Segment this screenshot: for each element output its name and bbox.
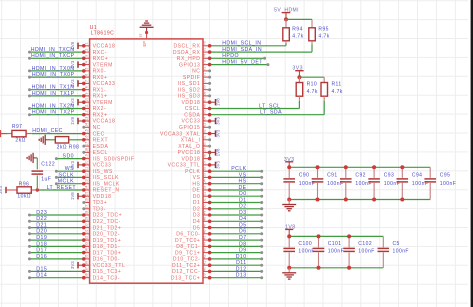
svg-text:TD3-: TD3- bbox=[93, 207, 106, 213]
svg-text:52: 52 bbox=[203, 192, 207, 196]
svg-text:57: 57 bbox=[139, 34, 143, 38]
svg-text:18: 18 bbox=[85, 148, 89, 152]
svg-text:VDD18: VDD18 bbox=[93, 194, 112, 200]
svg-text:C91: C91 bbox=[327, 172, 338, 178]
svg-text:D6: D6 bbox=[239, 229, 247, 235]
svg-text:70: 70 bbox=[203, 79, 207, 83]
svg-text:2kΩ R98: 2kΩ R98 bbox=[57, 144, 80, 150]
svg-text:D5: D5 bbox=[193, 225, 201, 231]
svg-text:RXC+: RXC+ bbox=[93, 56, 109, 62]
svg-text:D17_TD0+: D17_TD0+ bbox=[93, 250, 122, 256]
svg-text:4.7k: 4.7k bbox=[307, 89, 318, 95]
svg-text:D5: D5 bbox=[239, 223, 247, 229]
svg-text:8: 8 bbox=[85, 86, 89, 88]
svg-text:44: 44 bbox=[203, 242, 207, 246]
svg-text:D21_TD2+: D21_TD2+ bbox=[93, 225, 122, 231]
svg-text:10kΩ: 10kΩ bbox=[17, 194, 31, 200]
svg-text:D18_TD1-: D18_TD1- bbox=[93, 244, 120, 250]
svg-text:3V3: 3V3 bbox=[70, 98, 75, 106]
svg-text:D7: D7 bbox=[239, 235, 247, 241]
svg-text:45: 45 bbox=[203, 236, 207, 240]
svg-text:1V8: 1V8 bbox=[70, 41, 75, 49]
svg-text:D19: D19 bbox=[36, 235, 47, 241]
svg-text:CSCL: CSCL bbox=[185, 106, 201, 112]
svg-text:D19_TD1+: D19_TD1+ bbox=[93, 238, 122, 244]
svg-text:R94: R94 bbox=[292, 26, 303, 32]
svg-text:4.7k: 4.7k bbox=[318, 34, 329, 40]
svg-text:HDMI_IN_TX0N: HDMI_IN_TX0N bbox=[32, 66, 75, 72]
svg-text:60: 60 bbox=[203, 142, 207, 146]
svg-text:6: 6 bbox=[85, 74, 89, 76]
svg-text:26: 26 bbox=[85, 198, 89, 202]
svg-text:HS: HS bbox=[238, 179, 246, 185]
svg-text:PVCC18: PVCC18 bbox=[178, 150, 201, 156]
svg-text:64: 64 bbox=[203, 117, 207, 121]
svg-text:D0: D0 bbox=[239, 191, 247, 197]
svg-text:HPDO: HPDO bbox=[222, 53, 239, 59]
svg-text:3V3: 3V3 bbox=[70, 261, 75, 269]
svg-text:C93: C93 bbox=[384, 172, 395, 178]
svg-text:DE: DE bbox=[238, 185, 246, 191]
svg-text:SPDIF: SPDIF bbox=[183, 75, 200, 81]
svg-text:HDMI_IN_TX1P: HDMI_IN_TX1P bbox=[32, 91, 75, 97]
svg-text:VCC33_TTL: VCC33_TTL bbox=[93, 263, 126, 269]
svg-text:VTERM: VTERM bbox=[93, 62, 113, 68]
svg-text:D7_TC0+: D7_TC0+ bbox=[175, 238, 200, 244]
svg-text:4: 4 bbox=[85, 61, 89, 63]
svg-text:1V8: 1V8 bbox=[70, 192, 75, 200]
svg-text:D15_TC3+: D15_TC3+ bbox=[93, 269, 122, 275]
svg-text:PCLK: PCLK bbox=[231, 166, 246, 172]
svg-text:NC: NC bbox=[93, 125, 101, 131]
svg-text:7: 7 bbox=[85, 80, 89, 82]
svg-text:TD3+: TD3+ bbox=[93, 200, 108, 206]
svg-text:XTAL_O: XTAL_O bbox=[178, 144, 200, 150]
svg-text:R11: R11 bbox=[332, 82, 342, 88]
svg-text:VCCA33: VCCA33 bbox=[93, 81, 116, 87]
svg-text:C95: C95 bbox=[440, 172, 451, 178]
svg-text:HDMI_IN_TX1N: HDMI_IN_TX1N bbox=[32, 85, 75, 91]
svg-text:2: 2 bbox=[85, 49, 89, 51]
svg-text:R96: R96 bbox=[19, 181, 30, 187]
svg-text:51: 51 bbox=[203, 198, 207, 202]
svg-text:ESDA: ESDA bbox=[93, 144, 109, 150]
svg-text:D16: D16 bbox=[36, 254, 47, 260]
svg-text:PCLK: PCLK bbox=[185, 169, 200, 175]
svg-text:27: 27 bbox=[85, 204, 89, 208]
svg-text:C101: C101 bbox=[328, 241, 342, 247]
svg-text:67: 67 bbox=[203, 98, 207, 102]
svg-text:2kΩ: 2kΩ bbox=[15, 137, 25, 143]
svg-text:D17: D17 bbox=[36, 248, 47, 254]
svg-text:C94: C94 bbox=[412, 172, 423, 178]
svg-text:VCC33: VCC33 bbox=[93, 163, 112, 169]
svg-text:D12: D12 bbox=[236, 266, 247, 272]
svg-text:D1: D1 bbox=[239, 197, 247, 203]
svg-text:VDD18: VDD18 bbox=[182, 156, 201, 162]
svg-text:RX2+: RX2+ bbox=[93, 112, 108, 118]
svg-text:IIS_SD3: IIS_SD3 bbox=[178, 94, 200, 100]
svg-text:D14_TC3-: D14_TC3- bbox=[93, 275, 120, 281]
svg-text:76: 76 bbox=[203, 41, 207, 45]
svg-text:RX1+: RX1+ bbox=[93, 94, 108, 100]
svg-text:50: 50 bbox=[203, 204, 207, 208]
svg-text:1V8: 1V8 bbox=[70, 117, 75, 125]
svg-text:RX0+: RX0+ bbox=[93, 75, 108, 81]
svg-text:5: 5 bbox=[85, 67, 89, 69]
svg-text:HDMI_IN_TXCP: HDMI_IN_TXCP bbox=[31, 53, 75, 59]
svg-text:LT_SCL: LT_SCL bbox=[259, 103, 280, 109]
svg-text:VCCA18: VCCA18 bbox=[93, 44, 116, 50]
svg-text:100nF: 100nF bbox=[393, 249, 409, 255]
svg-text:D18: D18 bbox=[36, 241, 47, 247]
svg-text:56: 56 bbox=[203, 167, 207, 171]
svg-text:IIS_SD0/SPDIF: IIS_SD0/SPDIF bbox=[93, 156, 135, 162]
svg-text:C122: C122 bbox=[41, 162, 55, 168]
svg-text:GPIO13: GPIO13 bbox=[179, 62, 200, 68]
svg-text:MCLK: MCLK bbox=[58, 179, 74, 185]
svg-text:VCC33: VCC33 bbox=[182, 119, 201, 125]
svg-text:100nF: 100nF bbox=[440, 181, 456, 187]
svg-text:VCCA18: VCCA18 bbox=[93, 119, 116, 125]
svg-text:C5: C5 bbox=[393, 241, 400, 247]
svg-text:LT_RESET: LT_RESET bbox=[47, 185, 77, 191]
svg-text:100nF: 100nF bbox=[328, 249, 344, 255]
svg-text:71: 71 bbox=[203, 73, 207, 77]
svg-text:14: 14 bbox=[85, 123, 89, 127]
svg-text:D6_TC0-: D6_TC0- bbox=[176, 232, 200, 238]
svg-text:54: 54 bbox=[203, 179, 207, 183]
svg-text:61: 61 bbox=[203, 135, 207, 139]
svg-text:XTAL_I: XTAL_I bbox=[181, 138, 201, 144]
svg-text:DE: DE bbox=[192, 188, 200, 194]
svg-text:74: 74 bbox=[203, 54, 207, 58]
svg-text:9: 9 bbox=[85, 92, 89, 94]
svg-text:D3: D3 bbox=[193, 213, 201, 219]
svg-text:R95: R95 bbox=[318, 26, 329, 32]
svg-text:1: 1 bbox=[85, 42, 89, 44]
svg-text:4.7k: 4.7k bbox=[292, 34, 303, 40]
svg-text:3V3: 3V3 bbox=[70, 160, 75, 168]
svg-text:3V3: 3V3 bbox=[70, 79, 75, 87]
svg-text:HDMI_IN_TX2P: HDMI_IN_TX2P bbox=[32, 110, 75, 116]
svg-text:40: 40 bbox=[203, 267, 207, 271]
svg-text:C100: C100 bbox=[298, 241, 312, 247]
svg-text:47: 47 bbox=[203, 223, 207, 227]
svg-text:59: 59 bbox=[203, 148, 207, 152]
svg-text:72: 72 bbox=[203, 67, 207, 71]
svg-text:1V8: 1V8 bbox=[216, 148, 221, 156]
svg-text:CSDA: CSDA bbox=[184, 112, 200, 118]
svg-text:4.7k: 4.7k bbox=[332, 89, 343, 95]
svg-text:IIS_WS: IIS_WS bbox=[93, 169, 113, 175]
svg-text:D4: D4 bbox=[193, 219, 201, 225]
svg-text:HDMI_SDA_IN: HDMI_SDA_IN bbox=[222, 47, 262, 53]
svg-text:D12_TCC-: D12_TCC- bbox=[172, 269, 200, 275]
svg-text:D10_TC2-: D10_TC2- bbox=[173, 257, 200, 263]
svg-text:69: 69 bbox=[203, 85, 207, 89]
svg-text:RX1-: RX1- bbox=[93, 87, 107, 93]
svg-text:C102: C102 bbox=[358, 241, 372, 247]
svg-text:42: 42 bbox=[203, 255, 207, 259]
svg-text:R10: R10 bbox=[307, 82, 318, 88]
svg-text:3V3: 3V3 bbox=[70, 60, 75, 68]
svg-text:VS: VS bbox=[193, 175, 201, 181]
svg-text:17: 17 bbox=[85, 142, 89, 146]
svg-text:3V3: 3V3 bbox=[216, 160, 221, 168]
svg-text:R97: R97 bbox=[12, 124, 23, 130]
svg-text:HDMI_IN_TXCN: HDMI_IN_TXCN bbox=[31, 47, 75, 53]
svg-text:LT8619C: LT8619C bbox=[91, 31, 114, 37]
svg-text:1V8: 1V8 bbox=[216, 98, 221, 106]
svg-text:RX2-: RX2- bbox=[93, 106, 107, 112]
svg-text:100nF: 100nF bbox=[358, 249, 374, 255]
svg-text:REXT: REXT bbox=[93, 138, 109, 144]
svg-text:100nF: 100nF bbox=[298, 249, 314, 255]
svg-text:ESCL: ESCL bbox=[93, 150, 108, 156]
svg-text:D16_TD0-: D16_TD0- bbox=[93, 257, 120, 263]
svg-text:D20_TD2-: D20_TD2- bbox=[93, 232, 120, 238]
svg-text:VTERM: VTERM bbox=[93, 100, 113, 106]
svg-text:D2: D2 bbox=[239, 204, 247, 210]
svg-text:IIS_MCLK: IIS_MCLK bbox=[93, 181, 120, 187]
svg-text:HDMI_IN_TX0P: HDMI_IN_TX0P bbox=[32, 72, 75, 78]
svg-text:D21: D21 bbox=[36, 223, 47, 229]
svg-text:D4: D4 bbox=[239, 216, 247, 222]
svg-text:D9: D9 bbox=[239, 248, 247, 254]
svg-text:49: 49 bbox=[203, 211, 207, 215]
svg-text:VCC33_TTL: VCC33_TTL bbox=[168, 163, 201, 169]
svg-text:D15: D15 bbox=[36, 266, 47, 272]
svg-text:D10: D10 bbox=[236, 254, 247, 260]
svg-text:SD0: SD0 bbox=[63, 154, 74, 160]
svg-text:D8: D8 bbox=[239, 241, 247, 247]
svg-text:EP: EP bbox=[142, 41, 147, 47]
svg-text:58: 58 bbox=[203, 154, 207, 158]
svg-text:62: 62 bbox=[203, 129, 207, 133]
svg-text:D13_TCC+: D13_TCC+ bbox=[171, 275, 201, 281]
svg-text:D2: D2 bbox=[193, 207, 201, 213]
svg-text:39: 39 bbox=[203, 273, 207, 277]
svg-text:HS: HS bbox=[192, 181, 200, 187]
svg-text:48: 48 bbox=[203, 217, 207, 221]
svg-text:IIS_SCLK: IIS_SCLK bbox=[93, 175, 119, 181]
svg-text:D23: D23 bbox=[36, 210, 47, 216]
svg-text:C92: C92 bbox=[355, 172, 366, 178]
svg-text:CEC: CEC bbox=[93, 131, 105, 137]
svg-text:RXC-: RXC- bbox=[93, 50, 107, 56]
svg-text:D0: D0 bbox=[193, 194, 201, 200]
svg-text:VCCA33_XTAL: VCCA33_XTAL bbox=[160, 131, 200, 137]
svg-text:NC: NC bbox=[192, 69, 200, 75]
svg-text:HDMI_IN_TX2N: HDMI_IN_TX2N bbox=[32, 103, 75, 109]
svg-text:75: 75 bbox=[203, 48, 207, 52]
svg-text:3: 3 bbox=[85, 55, 89, 57]
svg-text:IIS_SD2: IIS_SD2 bbox=[178, 87, 200, 93]
svg-text:RX0-: RX0- bbox=[93, 69, 107, 75]
svg-text:1uF: 1uF bbox=[41, 177, 51, 183]
svg-text:HDMI_CEC: HDMI_CEC bbox=[32, 128, 63, 134]
svg-text:D9_TC1+: D9_TC1+ bbox=[175, 250, 200, 256]
svg-text:D20: D20 bbox=[36, 229, 47, 235]
svg-text:43: 43 bbox=[203, 248, 207, 252]
svg-text:73: 73 bbox=[203, 60, 207, 64]
svg-text:D3: D3 bbox=[239, 210, 247, 216]
svg-text:D11_TC2+: D11_TC2+ bbox=[172, 263, 200, 269]
svg-text:3V3: 3V3 bbox=[216, 129, 221, 137]
svg-text:VS: VS bbox=[239, 172, 247, 178]
svg-text:GPIO15: GPIO15 bbox=[179, 125, 200, 131]
svg-text:63: 63 bbox=[203, 123, 207, 127]
svg-text:D8_TC1-: D8_TC1- bbox=[176, 244, 200, 250]
svg-text:41: 41 bbox=[203, 261, 207, 265]
svg-text:D11: D11 bbox=[236, 260, 246, 266]
svg-text:DSCL_RX: DSCL_RX bbox=[173, 44, 200, 50]
svg-text:68: 68 bbox=[203, 92, 207, 96]
svg-text:D14: D14 bbox=[36, 273, 47, 279]
svg-text:C90: C90 bbox=[299, 172, 310, 178]
svg-text:D13: D13 bbox=[236, 273, 247, 279]
svg-text:D23_TDC+: D23_TDC+ bbox=[93, 213, 123, 219]
svg-text:IIS_SD1: IIS_SD1 bbox=[178, 81, 200, 87]
svg-text:55: 55 bbox=[203, 173, 207, 177]
svg-text:3V3: 3V3 bbox=[216, 117, 221, 125]
svg-text:57: 57 bbox=[203, 161, 207, 165]
svg-text:SCLK: SCLK bbox=[59, 172, 74, 178]
svg-text:D22: D22 bbox=[36, 216, 47, 222]
svg-text:66: 66 bbox=[203, 104, 207, 108]
svg-text:LT_SDA: LT_SDA bbox=[260, 110, 282, 116]
svg-text:HDMI_SCL_IN: HDMI_SCL_IN bbox=[222, 41, 261, 47]
svg-text:3V3: 3V3 bbox=[0, 186, 3, 194]
svg-text:D22_TDC-: D22_TDC- bbox=[93, 219, 121, 225]
svg-text:65: 65 bbox=[203, 110, 207, 114]
svg-text:VDD18: VDD18 bbox=[182, 100, 201, 106]
svg-text:53: 53 bbox=[203, 186, 207, 190]
svg-text:HDMI_5V_DET: HDMI_5V_DET bbox=[222, 60, 263, 66]
svg-text:RX_HPD: RX_HPD bbox=[177, 56, 201, 62]
svg-text:RESET_N: RESET_N bbox=[93, 188, 120, 194]
svg-text:DSDA_RX: DSDA_RX bbox=[173, 50, 201, 56]
svg-text:46: 46 bbox=[203, 229, 207, 233]
svg-text:D1: D1 bbox=[193, 200, 201, 206]
